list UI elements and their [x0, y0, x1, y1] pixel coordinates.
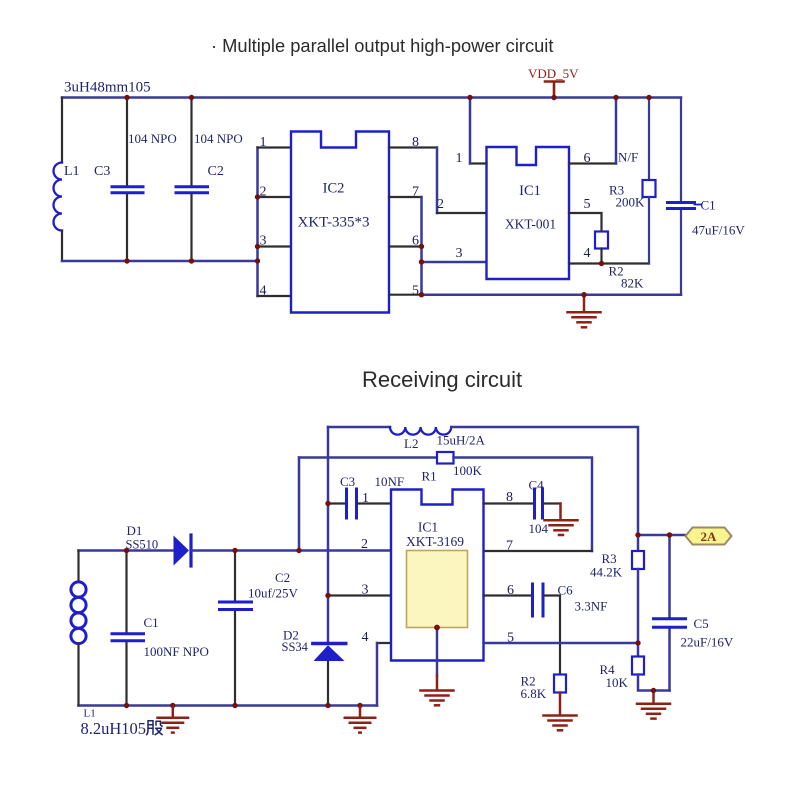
node dot bus pin2 — [255, 194, 260, 199]
wire IC2 pin4 stub — [258, 295, 293, 297]
svg-text:L1: L1 — [64, 164, 80, 179]
pin numbers IC2 right — [412, 135, 419, 299]
resistor R3 rx 44.2K — [632, 551, 644, 569]
svg-text:1: 1 — [456, 151, 463, 166]
node dot C1 rx top — [124, 548, 129, 553]
svg-text:L2: L2 — [404, 436, 418, 451]
node dot pin2 vertical — [296, 548, 301, 553]
inductor L1 — [54, 163, 63, 231]
wire rx left coil top lead — [77, 551, 79, 583]
pin numbers IC2 left — [260, 135, 267, 299]
wire C6 to R2 — [545, 596, 561, 675]
svg-text:C2: C2 — [275, 570, 290, 585]
svg-text:Receiving circuit: Receiving circuit — [362, 367, 522, 392]
wire R3 rx bottom lead — [637, 569, 640, 657]
node dot rail D2 — [325, 703, 330, 708]
node dot C2 rx top — [232, 548, 237, 553]
svg-text:100K: 100K — [453, 463, 483, 478]
svg-text:8: 8 — [506, 490, 513, 505]
node dot rail gnd2 — [357, 703, 362, 708]
IC2 body XKT-335*3 — [291, 132, 389, 313]
wire IC1 pin1 to VDD rail — [470, 162, 487, 164]
svg-text:C5: C5 — [694, 616, 709, 631]
svg-text:6: 6 — [584, 151, 591, 166]
wire top VDD rail — [62, 96, 681, 99]
node dot rail pin1 — [467, 95, 472, 100]
node dot bottom C3 — [124, 258, 129, 263]
svg-text:· Multiple parallel output hig: · Multiple parallel output high-power ci… — [211, 35, 553, 56]
wire R3 rx top lead — [637, 535, 640, 551]
capacitor C5 leads — [668, 535, 671, 691]
resistor R1 100K — [437, 452, 454, 464]
svg-text:XKT-3169: XKT-3169 — [406, 534, 464, 549]
svg-text:22uF/16V: 22uF/16V — [681, 635, 734, 650]
svg-text:104 NPO: 104 NPO — [194, 131, 243, 146]
svg-text:3.3NF: 3.3NF — [575, 599, 608, 614]
node dot 2A C5 — [667, 532, 672, 537]
wire IC2 pin8 stub — [389, 146, 437, 148]
wire rx bottom rail — [79, 704, 378, 707]
svg-text:C4: C4 — [529, 478, 545, 493]
svg-text:L1: L1 — [84, 708, 96, 720]
wire rx pin1 stub left — [328, 502, 346, 504]
node dot rail C2 — [189, 95, 194, 100]
pin numbers IC1 right — [584, 151, 591, 261]
wire IC2 pin1 stub — [258, 146, 293, 148]
svg-text:4: 4 — [260, 284, 267, 299]
wire die to ground — [436, 628, 439, 676]
wire IC2 left bus — [256, 148, 259, 297]
svg-text:7: 7 — [412, 185, 419, 200]
svg-text:C1: C1 — [144, 615, 159, 630]
svg-text:XKT-335*3: XKT-335*3 — [298, 215, 370, 231]
capacitor C2 plates — [176, 187, 208, 193]
wire rx pin4 to ground rail — [377, 642, 391, 644]
wire IC1 pin6 to rail N/F — [569, 162, 616, 164]
node dot 2A left — [635, 532, 640, 537]
svg-text:82K: 82K — [621, 276, 644, 291]
svg-text:100NF NPO: 100NF NPO — [144, 644, 209, 659]
wire R3 top lead — [648, 98, 650, 181]
capacitor C6 plates — [533, 584, 544, 616]
wire left vertical top to rail — [327, 427, 330, 642]
capacitor C3 plates — [112, 187, 143, 193]
ground C4 — [545, 504, 578, 536]
svg-text:2A: 2A — [701, 529, 718, 544]
wire IC2 pin6 stub — [389, 245, 422, 247]
wire IC2 pin3 stub — [258, 245, 293, 247]
resistor R4 10K — [632, 657, 644, 675]
wire rx pin5 net — [484, 642, 639, 645]
ground R4 C5 — [637, 691, 670, 719]
wire left vertical R1 to pin2 — [298, 458, 301, 551]
capacitor C2 rx leads — [234, 551, 236, 706]
svg-text:104 NPO: 104 NPO — [128, 131, 177, 146]
IC1 rx inner die — [407, 551, 468, 628]
svg-text:8.2uH105: 8.2uH105 — [81, 719, 147, 738]
wire rx pin8 stub — [484, 502, 534, 504]
resistor R2 rx 6.8K — [554, 675, 566, 693]
capacitor C1 rx leads — [125, 551, 127, 706]
capacitor C2 rx plates — [220, 602, 252, 610]
ground rx rail 1 — [156, 706, 189, 733]
wire 2A net — [638, 534, 686, 537]
wire IC1 pin5 stub — [569, 213, 602, 232]
svg-text:44.2K: 44.2K — [590, 565, 623, 580]
node dot R2 pin4 — [599, 261, 604, 266]
power VDD_5V symbol — [545, 82, 564, 98]
svg-text:C1: C1 — [701, 198, 716, 213]
wire rx pin2 net left — [79, 549, 175, 552]
wire rx pin3 stub — [328, 594, 391, 596]
node dot pin5 R3 — [635, 640, 640, 645]
ground rx IC — [421, 676, 454, 706]
svg-text:47uF/16V: 47uF/16V — [692, 223, 745, 238]
diode D2 SS34 — [313, 644, 346, 662]
capacitor C4 plates — [535, 489, 543, 518]
svg-text:C2: C2 — [208, 164, 224, 179]
svg-text:C3: C3 — [340, 474, 355, 489]
ground rx rail 2 — [344, 706, 377, 733]
svg-text:6: 6 — [412, 234, 419, 249]
svg-text:SS34: SS34 — [282, 640, 309, 654]
svg-text:3: 3 — [260, 234, 267, 249]
wire R3 bottom lead — [648, 197, 650, 264]
resistor R3 200K — [643, 180, 656, 197]
wire IC2 pin2 stub — [258, 196, 293, 198]
svg-text:4: 4 — [584, 246, 591, 261]
node dot rail C3 — [124, 95, 129, 100]
wire rx pin1 stub right — [358, 502, 391, 504]
wire R4 bottom lead — [638, 675, 670, 691]
IC1 body XKT-001 — [487, 147, 570, 279]
svg-text:6.8K: 6.8K — [521, 686, 547, 701]
wire R2 bottom lead — [600, 249, 602, 264]
svg-text:3uH48mm105: 3uH48mm105 — [64, 80, 151, 96]
wire IC2 right bus — [420, 197, 423, 295]
svg-text:104: 104 — [529, 521, 549, 536]
wire IC2 pin7 stub — [389, 196, 422, 198]
svg-text:XKT-001: XKT-001 — [505, 217, 556, 232]
node dot gnd R4 — [651, 688, 656, 693]
svg-text:3: 3 — [362, 583, 369, 598]
svg-text:IC2: IC2 — [323, 181, 345, 197]
wire IC1 pin4 net — [569, 262, 649, 264]
pin numbers rx right — [506, 490, 514, 646]
wire D2 lower lead — [327, 661, 329, 706]
wire node3 to IC1 pin3 — [422, 261, 487, 264]
node dot rail NF — [613, 95, 618, 100]
ground R2 rx — [544, 693, 577, 731]
svg-text:C3: C3 — [94, 164, 110, 179]
svg-text:200K: 200K — [616, 195, 646, 210]
wire R1 net left — [299, 456, 437, 459]
capacitor C1 plates — [668, 203, 695, 209]
glyph gu strand character — [147, 721, 163, 735]
svg-text:2: 2 — [361, 537, 368, 552]
svg-text:1: 1 — [260, 135, 267, 150]
svg-text:D1: D1 — [127, 523, 143, 538]
svg-text:5: 5 — [412, 284, 419, 299]
capacitor C5 plates — [654, 619, 686, 627]
node dot pin3 — [325, 593, 330, 598]
wire pin8 to IC1 pin2 — [436, 148, 439, 214]
svg-text:5: 5 — [584, 197, 591, 212]
svg-text:IC1: IC1 — [418, 520, 438, 535]
node dot pin1 C3 — [325, 501, 330, 506]
wire rx top net right — [451, 427, 638, 535]
IC1 rx body XKT-3169 — [391, 490, 484, 661]
node dot rightbus pin5 — [419, 292, 424, 297]
capacitor C1 rx plates — [112, 634, 144, 641]
node dot rail gnd1 — [170, 703, 175, 708]
node dot ground bottom — [581, 292, 586, 297]
node dot rightbus pin3wire — [419, 259, 424, 264]
inductor L2 — [390, 427, 451, 435]
node dot rail VDD — [551, 95, 556, 100]
svg-text:SS510: SS510 — [126, 538, 159, 552]
svg-text:4: 4 — [362, 630, 369, 645]
node dot bottom C2 — [189, 258, 194, 263]
svg-text:10uf/25V: 10uf/25V — [248, 586, 298, 601]
node dot rail R3 — [646, 95, 651, 100]
svg-text:10K: 10K — [606, 675, 629, 690]
svg-text:15uH/2A: 15uH/2A — [437, 433, 486, 448]
wire rx pin2 net right — [192, 549, 391, 552]
svg-text:6: 6 — [507, 583, 514, 598]
svg-text:5: 5 — [507, 631, 514, 646]
pin numbers IC1 left — [437, 151, 463, 261]
node dot rightbus pin6 — [419, 244, 424, 249]
diode D1 SS510 — [174, 535, 192, 566]
svg-text:C6: C6 — [558, 583, 574, 598]
node dot rail C1 — [124, 703, 129, 708]
svg-text:10NF: 10NF — [375, 474, 405, 489]
node dot die bottom — [434, 625, 440, 631]
wire bottom net — [422, 293, 682, 296]
capacitor C1 leads — [680, 98, 682, 295]
svg-text:7: 7 — [506, 539, 513, 554]
node dot rail C2 — [232, 703, 237, 708]
resistor R2 82K — [595, 232, 608, 249]
wire L1 bottom lead — [61, 231, 63, 262]
wire R1 net right to pin7 — [454, 458, 593, 552]
svg-text:N/F: N/F — [618, 150, 638, 165]
capacitor C3 rx plates — [347, 489, 357, 518]
wire rx top net left — [328, 426, 390, 429]
svg-text:2: 2 — [260, 185, 267, 200]
svg-text:2: 2 — [437, 197, 444, 212]
svg-text:R1: R1 — [422, 469, 437, 484]
svg-text:IC1: IC1 — [519, 183, 541, 199]
inductor L1 rx coil — [71, 582, 86, 644]
svg-text:VDD_5V: VDD_5V — [528, 66, 579, 81]
svg-text:8: 8 — [412, 135, 419, 150]
wire left drop to L1 — [61, 98, 63, 163]
capacitor C1 label tick — [695, 204, 702, 206]
wire IC2 pin5 stub — [389, 294, 422, 296]
svg-text:3: 3 — [456, 246, 463, 261]
wire rx left coil bottom lead — [77, 644, 79, 706]
wire rx pin6 stub — [484, 594, 532, 596]
svg-text:1: 1 — [362, 491, 369, 506]
node dot bus rail — [255, 258, 260, 263]
node dot bus pin3 — [255, 244, 260, 249]
wire bottom-left rail — [62, 260, 258, 263]
capacitor C2 leads — [190, 98, 192, 262]
ground transmitter — [568, 295, 601, 328]
port flag 2A — [686, 528, 732, 545]
pin numbers rx left — [361, 491, 369, 645]
capacitor C3 leads — [126, 98, 128, 262]
wire C4 to ground — [544, 502, 561, 504]
